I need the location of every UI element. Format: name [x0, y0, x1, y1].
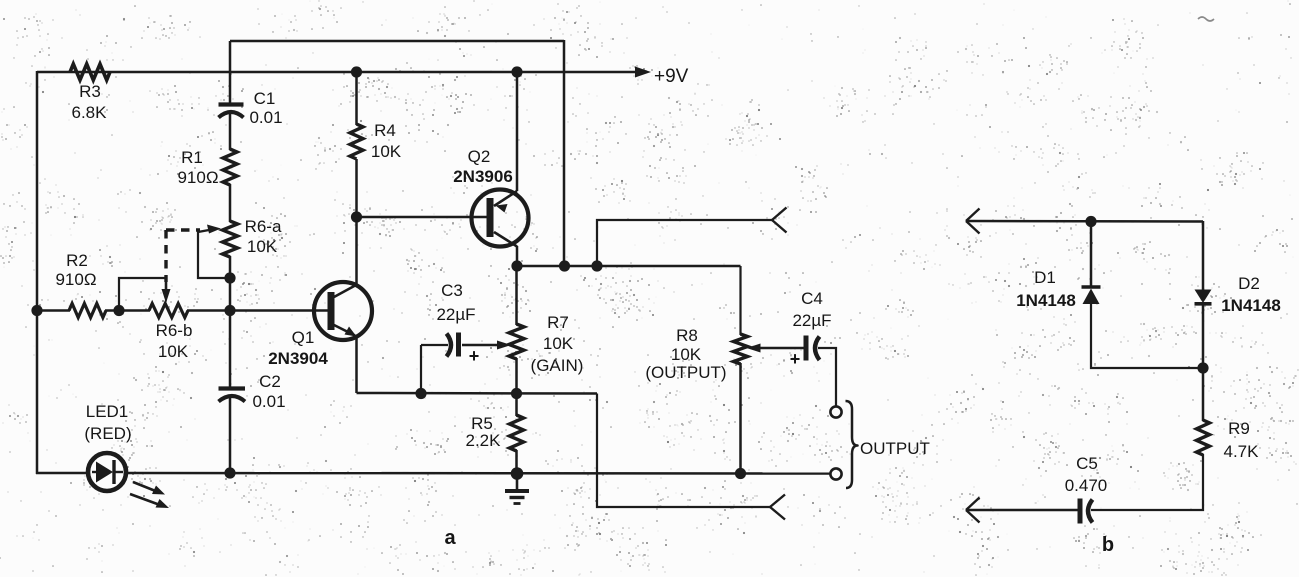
wire C4 to jack [818, 348, 836, 406]
ground [505, 473, 529, 504]
node R2-R6b junction [113, 305, 124, 316]
wiper arrow R6-a [198, 225, 221, 234]
node R8-rail junction [735, 468, 746, 479]
svg-text:C2: C2 [259, 372, 281, 391]
connector fork bottom [770, 495, 785, 520]
svg-text:D2: D2 [1238, 274, 1260, 293]
terminal output tip [830, 406, 841, 417]
node D1 top junction [1085, 216, 1096, 227]
wire D2-R9 lead [1202, 303, 1205, 421]
wire C3 stub [421, 345, 448, 393]
wire Q1 collector column [355, 159, 358, 285]
wire collector node row [517, 265, 741, 268]
label R9 4.7K [1224, 419, 1260, 461]
label R5 2.2K [466, 414, 502, 450]
svg-text:2N3904: 2N3904 [268, 349, 328, 368]
label C3 22uF [436, 281, 475, 324]
wire emitter row [357, 392, 598, 395]
wire R5 top lead [515, 393, 518, 416]
wire R9 bottom lead [1091, 454, 1203, 510]
svg-text:2.2K: 2.2K [466, 431, 502, 450]
label OUTPUT [860, 439, 930, 458]
wire C1 top lead [229, 41, 232, 103]
svg-text:C1: C1 [254, 89, 276, 108]
wire Q2 base lead [357, 216, 488, 219]
svg-text:a: a [444, 527, 456, 549]
node R6-a bottom [224, 272, 235, 283]
node row junction mid [591, 260, 602, 271]
svg-text:(OUTPUT): (OUTPUT) [645, 363, 726, 382]
power arrow +9V [635, 66, 689, 87]
capacitor C2 [219, 389, 246, 402]
wire main row left [36, 309, 70, 312]
label R1 910 [177, 148, 218, 187]
label C2 0.01 [252, 372, 285, 411]
svg-text:10K: 10K [247, 237, 278, 256]
wire R5 bottom lead [515, 450, 518, 473]
wire D2 top lead [1202, 221, 1205, 290]
label R8 10K OUTPUT [645, 326, 726, 382]
node Q2 emitter rail [511, 66, 522, 77]
wiper arrow R7 [462, 341, 511, 350]
label C5 0.470 [1065, 454, 1108, 495]
svg-text:22µF: 22µF [436, 305, 475, 324]
wire feedback drop [563, 40, 566, 266]
resistor R2 [69, 304, 106, 318]
terminal output sleeve [830, 468, 841, 479]
wire R8 top lead [739, 266, 741, 335]
svg-text:10K: 10K [158, 342, 189, 361]
node R7 bottom junction [511, 388, 522, 399]
label subfigure b [1102, 534, 1114, 556]
node R4 top rail [351, 66, 362, 77]
svg-text:R2: R2 [66, 251, 88, 270]
node C2-rail junction [224, 467, 235, 478]
svg-text:R3: R3 [79, 82, 101, 101]
wire C1-R1 lead [229, 112, 232, 150]
resistor R5 [510, 415, 524, 451]
label Q2 2N3906 [453, 147, 513, 186]
wire D1 top lead [1090, 221, 1093, 287]
brace output [846, 401, 858, 488]
wire R7 bottom lead [515, 358, 518, 394]
svg-text:(GAIN): (GAIN) [531, 356, 584, 375]
transistor Q2 [472, 190, 529, 247]
potentiometer R6-b [149, 304, 188, 318]
label Q1 2N3904 [268, 328, 328, 368]
svg-text:OUTPUT: OUTPUT [860, 439, 930, 458]
resistor R4 [350, 124, 363, 159]
label R4 10K [371, 121, 402, 161]
wiper arrow R8 [747, 344, 805, 353]
label LED1 RED [84, 402, 131, 443]
svg-text:R8: R8 [676, 326, 698, 345]
svg-text:0.01: 0.01 [249, 108, 282, 127]
wire D1 bottom lead [1091, 303, 1203, 368]
svg-text:b: b [1102, 534, 1114, 556]
gang link dashed [166, 230, 200, 282]
wire Q1 base lead [230, 309, 330, 312]
diode D1 [1082, 287, 1101, 304]
svg-text:+9V: +9V [654, 66, 689, 87]
wire R1-R6a lead [229, 184, 232, 222]
svg-text:10K: 10K [371, 142, 402, 161]
svg-text:R9: R9 [1228, 419, 1250, 438]
wire bottom ground rail left [36, 472, 89, 475]
svg-text:Q2: Q2 [468, 147, 491, 166]
wire b top rail [966, 220, 1203, 223]
svg-text:2N3906: 2N3906 [453, 167, 513, 186]
svg-text:910Ω: 910Ω [177, 168, 218, 187]
svg-text:+: + [469, 346, 480, 366]
svg-text:1N4148: 1N4148 [1016, 291, 1076, 310]
wire C2 bottom lead [229, 398, 232, 473]
label R6-b 10K [156, 321, 193, 361]
wire R2-R6b [105, 309, 150, 312]
wire R6-b wiper return [119, 278, 166, 310]
capacitor C5 [1080, 499, 1093, 524]
wire R6-a wiper return [198, 231, 230, 278]
potentiometer R7 [509, 324, 524, 359]
potentiometer R6-a [223, 221, 238, 257]
connector fork top [772, 208, 787, 233]
svg-text:910Ω: 910Ω [55, 270, 96, 289]
resistor R9 [1197, 420, 1210, 455]
wire Q2 emitter column [516, 72, 519, 191]
wiper arrow R6-b [162, 280, 171, 303]
potentiometer R8 [734, 334, 748, 364]
wire left bus vertical [36, 71, 39, 474]
label R7 10K GAIN [531, 313, 584, 375]
label D1 1N4148 [1016, 268, 1076, 310]
label D2 1N4148 [1221, 274, 1281, 315]
svg-text:0.01: 0.01 [252, 392, 285, 411]
wire R6b-bus [187, 309, 230, 312]
diode D2 [1195, 290, 1212, 304]
svg-text:C5: C5 [1076, 454, 1098, 473]
wire emitter row corner [597, 394, 770, 508]
svg-text:(RED): (RED) [84, 424, 131, 443]
wire top feedback horizontal [230, 40, 564, 43]
transistor Q1 [314, 282, 372, 340]
wire bottom ground rail [125, 472, 831, 475]
wire R8 bottom lead [739, 363, 742, 473]
svg-text:D1: D1 [1034, 268, 1056, 287]
svg-text:R4: R4 [374, 121, 396, 140]
svg-text:4.7K: 4.7K [1224, 442, 1260, 461]
label R6-a 10K [245, 217, 282, 256]
svg-text:Q1: Q1 [292, 328, 315, 347]
svg-text:R1: R1 [181, 148, 203, 167]
LED light arrows [130, 482, 169, 508]
node D2 bottom junction [1197, 362, 1208, 373]
capacitor C3 [447, 333, 480, 367]
resistor R3 [70, 64, 110, 80]
capacitor C4 [790, 336, 820, 370]
svg-text:0.470: 0.470 [1065, 476, 1108, 495]
svg-text:R6-b: R6-b [156, 321, 193, 340]
label R2 910 [55, 251, 96, 289]
node C3-rail junction [415, 388, 426, 399]
wire R4 top lead [355, 72, 358, 125]
wire R6a-node lead [229, 256, 232, 311]
connector arrow b bottom-left [966, 498, 980, 523]
svg-text:C4: C4 [801, 289, 823, 308]
wire R7 top lead [515, 266, 518, 325]
wire Q1 emitter column [355, 336, 358, 393]
label C4 22uF [792, 289, 831, 330]
node feedback-collector junction [559, 260, 570, 271]
LED LED1 [88, 453, 126, 491]
svg-text:R6-a: R6-a [245, 217, 282, 236]
svg-text:LED1: LED1 [86, 402, 129, 421]
resistor R1 [223, 149, 237, 185]
node left bus main row [31, 305, 42, 316]
connector arrow b top-left [966, 209, 980, 234]
wire output tap up [597, 220, 772, 266]
wire +9V supply rail [37, 71, 637, 74]
capacitor C1 [219, 105, 244, 118]
wire C2 top lead [229, 310, 232, 387]
svg-text:10K: 10K [671, 345, 702, 364]
node R5-rail junction [511, 467, 524, 480]
label R3 6.8K [72, 82, 108, 122]
svg-text:1N4148: 1N4148 [1221, 296, 1281, 315]
node Q2 collector junction [511, 260, 522, 271]
label subfigure a [444, 527, 456, 549]
svg-text:10K: 10K [543, 334, 574, 353]
label C1 0.01 [249, 89, 282, 127]
svg-text:C3: C3 [441, 281, 463, 300]
svg-text:22µF: 22µF [792, 311, 831, 330]
node R4-Q2base junction [351, 211, 362, 222]
svg-text:+: + [790, 349, 801, 369]
wire Q2 collector column [516, 246, 519, 266]
node main row at bus [224, 305, 235, 316]
svg-text:6.8K: 6.8K [72, 103, 108, 122]
wire b bottom rail [966, 509, 1078, 512]
svg-text:R7: R7 [547, 313, 569, 332]
